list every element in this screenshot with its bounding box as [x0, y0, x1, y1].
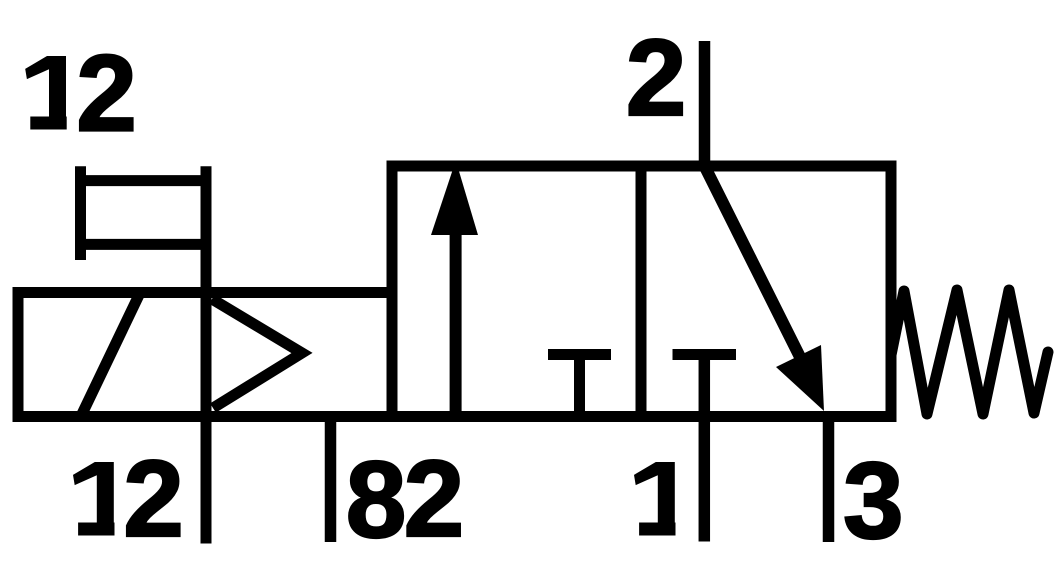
valve body outline (two position boxes) [392, 166, 891, 417]
return spring [891, 290, 1048, 414]
exhaust flow diagonal arrow (right position) shaft [705, 166, 807, 369]
label 82 (bottom port) [346, 438, 465, 561]
svg-text:3: 3 [843, 440, 904, 562]
label 12 (bottom left port) [73, 438, 184, 560]
pilot actuator slanted lever line [82, 295, 139, 414]
pneumatic pilot triangle [212, 299, 302, 408]
svg-text:8: 8 [346, 439, 407, 561]
svg-text:2: 2 [76, 33, 137, 155]
svg-text:2: 2 [626, 17, 687, 139]
label 1 (bottom supply port) [634, 462, 676, 536]
flow arrow up (left position) shaft [450, 230, 462, 416]
port 82 line (bottom, under pilot) [325, 416, 337, 542]
pilot spool bracket: left bar [75, 166, 86, 260]
port 2 line (top) [699, 41, 711, 171]
pilot actuator box [18, 293, 392, 417]
label 12 (top left pilot port) [25, 33, 137, 155]
exhaust flow diagonal arrow head [776, 345, 824, 411]
valve position divider [636, 166, 647, 417]
blocked port T (right position) [673, 349, 737, 360]
svg-text:2: 2 [123, 438, 184, 560]
port 1 line (through T stem down below box) [699, 355, 711, 542]
pilot spool bracket: bottom bar [75, 239, 211, 250]
flow arrow up (left position) head [431, 161, 478, 236]
port 3 line (bottom right) [823, 416, 835, 542]
pilot spool bracket: top bar [75, 175, 211, 186]
blocked port T (left position) [548, 355, 611, 415]
vertical line through pilot box down to port 12 [201, 166, 212, 543]
svg-text:2: 2 [404, 438, 465, 560]
